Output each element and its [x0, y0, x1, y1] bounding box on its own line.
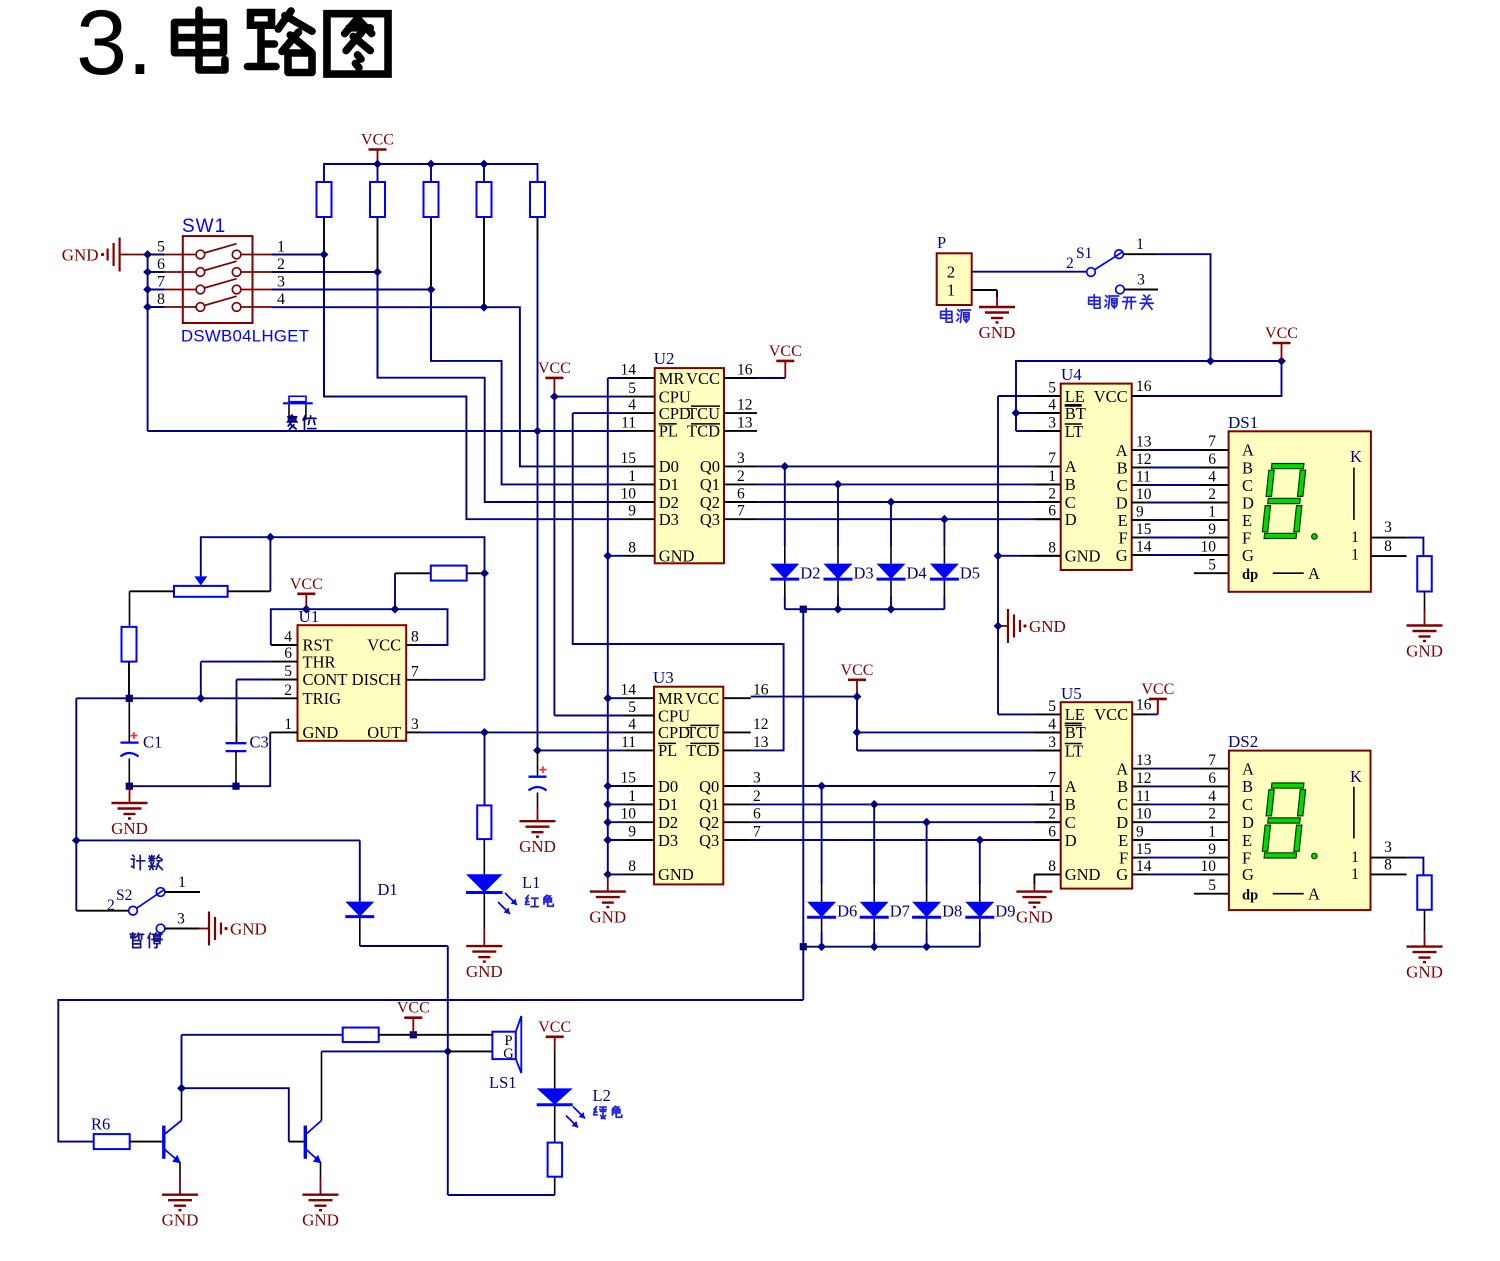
svg-text:LS1: LS1: [489, 1073, 517, 1092]
junction dot U3 MR: [603, 694, 612, 703]
svg-text:D2: D2: [800, 564, 820, 583]
wire reset line to U2 PL: [148, 430, 626, 432]
svg-text:D6: D6: [837, 902, 857, 921]
svg-text:Q3: Q3: [699, 831, 719, 850]
wire SW1 pin2 to R2: [272, 271, 378, 273]
svg-text:VCC: VCC: [1141, 681, 1174, 698]
DS2 pin name K and cathode line: [1350, 767, 1362, 839]
U2 pin stubs left: [626, 378, 655, 556]
pin number 3 (DS1): [1384, 519, 1392, 536]
wire R2 to DISCH column: [467, 572, 485, 574]
svg-text:D3: D3: [854, 564, 874, 583]
svg-text:1: 1: [277, 239, 285, 256]
svg-text:5: 5: [628, 699, 636, 716]
DS2 seven-segment digit 8.: [1262, 783, 1318, 859]
svg-text:E: E: [1242, 511, 1252, 530]
switch S1 pin3 contact: [1116, 285, 1158, 294]
U3 pin names right: [685, 689, 719, 850]
junction dot U3 VCC: [853, 692, 862, 701]
svg-text:16: 16: [737, 362, 753, 379]
svg-text:3: 3: [1384, 519, 1392, 536]
svg-text:5: 5: [1048, 698, 1056, 715]
junction dot Q0/D2: [780, 462, 789, 471]
wire S1 pin1 to U4 supply: [1123, 254, 1210, 361]
power flag VCC (U2 pin16): [757, 343, 802, 378]
svg-text:S2: S2: [116, 887, 132, 904]
label SW1: [182, 216, 226, 237]
junction dot TRIG/C1: [126, 695, 133, 702]
DS1 pin names 1 1: [1351, 529, 1359, 563]
svg-text:GND: GND: [1065, 547, 1101, 566]
wire U4 BT: [1016, 412, 1061, 414]
wire U4 G to DS1: [1147, 554, 1229, 556]
junction dot D1 branch: [72, 836, 81, 845]
U4 pin names right: [1094, 387, 1128, 565]
resistor R (L2 series): [548, 1143, 563, 1177]
junction dot Q0/D6: [817, 782, 826, 791]
wire RST-VCC loop: [271, 609, 448, 645]
power flag VCC (L2): [538, 1019, 571, 1052]
svg-text:1: 1: [1351, 529, 1359, 546]
svg-text:C: C: [1242, 795, 1253, 814]
resistor R2 (pull-up 2): [370, 182, 385, 217]
svg-text:D: D: [1242, 493, 1254, 512]
svg-text:C: C: [1117, 476, 1128, 495]
svg-text:B: B: [1117, 458, 1128, 477]
U5 pin names left: [1065, 705, 1101, 884]
svg-text:5: 5: [284, 663, 292, 680]
wire resistor to L1: [483, 839, 485, 874]
svg-text:1: 1: [1208, 504, 1216, 521]
svg-text:U5: U5: [1061, 684, 1082, 703]
svg-text:4: 4: [628, 397, 636, 414]
svg-text:B: B: [1117, 777, 1128, 796]
DS2 dp-A line: [1273, 885, 1320, 904]
wire R6 to Q1 base: [130, 1141, 163, 1143]
wire R2 bottom down: [377, 217, 379, 378]
svg-text:U4: U4: [1061, 365, 1082, 384]
junction dot VCC/supply line: [1277, 357, 1286, 366]
svg-text:GND: GND: [62, 246, 99, 265]
label D6: [837, 902, 857, 921]
junction dot R2 riser: [391, 605, 400, 614]
svg-text:3: 3: [737, 450, 745, 467]
svg-text:DSWB04LHGET: DSWB04LHGET: [181, 327, 309, 346]
svg-text:1: 1: [1351, 546, 1359, 563]
svg-text:D3: D3: [659, 510, 679, 529]
svg-text:K: K: [1350, 447, 1362, 466]
ground symbol GND (DS2): [1406, 931, 1443, 982]
U4 pin stubs right: [1132, 396, 1147, 555]
wire S2 pin1: [165, 891, 200, 893]
label U5: [1061, 684, 1082, 703]
svg-text:3: 3: [753, 770, 761, 787]
wire bottom bus: [58, 1000, 803, 1142]
DS2 dp stub: [1194, 893, 1229, 895]
diode D2: [770, 466, 799, 609]
svg-text:13: 13: [753, 734, 769, 751]
svg-text:VCC: VCC: [1094, 705, 1128, 724]
svg-text:9: 9: [628, 503, 636, 520]
svg-text:VCC: VCC: [769, 343, 802, 360]
svg-text:GND: GND: [519, 837, 556, 856]
svg-text:dp: dp: [1242, 888, 1258, 904]
DS1 segment pin names: [1242, 440, 1258, 583]
resistor R (DS1 cathode): [1417, 556, 1432, 591]
svg-text:6: 6: [284, 645, 292, 662]
svg-text:U3: U3: [653, 668, 674, 687]
wire U5 D to DS2: [1147, 821, 1229, 823]
svg-text:VCC: VCC: [361, 132, 394, 149]
U5 pin stubs left: [1035, 714, 1061, 874]
wire U3 Q2 to U5 input: [751, 821, 1061, 823]
wire R4 bottom down: [483, 217, 485, 307]
wire SW1 left common column to reset line: [148, 255, 165, 432]
svg-text:2: 2: [947, 263, 955, 282]
svg-text:VCC: VCC: [1094, 387, 1128, 406]
IC U2 body: [655, 368, 724, 563]
ground symbol GND (U3 ground rail): [589, 874, 626, 926]
switch S1: [1087, 250, 1124, 276]
wire BT LT supply line: [1016, 361, 1282, 431]
junction dot pin1/R1: [320, 250, 329, 259]
svg-text:11: 11: [621, 734, 636, 751]
svg-text:GND: GND: [230, 920, 267, 939]
junction dot Q3/D5: [940, 515, 949, 524]
svg-text:GND: GND: [1029, 617, 1066, 636]
label D7: [890, 902, 910, 921]
junction dot VCC/speaker P: [410, 1031, 417, 1038]
label DSWB04LHGET: [181, 327, 309, 346]
wire U4 LE to ground rail: [998, 396, 1061, 714]
wire U5 G to DS2: [1147, 873, 1229, 875]
resistor R5 (pull-up 5): [530, 182, 545, 217]
svg-text:2: 2: [277, 256, 285, 273]
junction dot U2 GND: [603, 551, 612, 560]
svg-text:GND: GND: [659, 547, 695, 566]
wire pot wiper to top rail and down to DISCH: [201, 537, 485, 680]
speaker LS1: [492, 1016, 521, 1073]
svg-text:G: G: [503, 1046, 514, 1062]
wire U2 Q1 to U4 input: [757, 483, 1061, 485]
wire R2 riser: [395, 573, 431, 609]
svg-text:1: 1: [1351, 849, 1359, 866]
wire U3 D inputs to ground rail: [608, 786, 626, 840]
svg-text:Q1: Q1: [700, 475, 720, 494]
svg-text:1: 1: [628, 788, 636, 805]
diode D3: [824, 484, 853, 609]
svg-text:1: 1: [1048, 468, 1056, 485]
wire VCC rail: [324, 164, 538, 182]
DS1 seven-segment digit 8.: [1262, 464, 1318, 540]
svg-text:A: A: [1116, 441, 1128, 460]
svg-text:GND: GND: [658, 865, 694, 884]
wire Q1 emitter to GND: [179, 1162, 181, 1178]
svg-text:R6: R6: [91, 1115, 110, 1134]
svg-text:13: 13: [737, 414, 753, 431]
label 复位: [287, 415, 316, 429]
svg-text:E: E: [1118, 831, 1128, 850]
ground symbol GND (C1): [111, 786, 148, 838]
svg-text:7: 7: [1048, 770, 1056, 787]
svg-text:1: 1: [1048, 788, 1056, 805]
wire U1 GND to C1 C3 bus: [129, 732, 297, 786]
U2 pin names left: [659, 369, 695, 566]
DS1 dp-A line: [1273, 564, 1320, 583]
svg-text:B: B: [1242, 777, 1253, 796]
svg-text:15: 15: [621, 770, 637, 787]
capacitor C2 (on U3 PL): [529, 750, 547, 808]
svg-text:D7: D7: [890, 902, 910, 921]
svg-text:C3: C3: [250, 733, 269, 752]
svg-text:DISCH: DISCH: [352, 670, 402, 689]
svg-text:12: 12: [1136, 451, 1152, 468]
wire U4 E to DS1: [1147, 519, 1229, 521]
transistor Q1: [164, 1121, 182, 1164]
junction dot VCC/RST loop: [302, 605, 311, 614]
IC U1 body: [298, 625, 407, 741]
svg-text:9: 9: [628, 824, 636, 841]
svg-text:2: 2: [1208, 486, 1216, 503]
ground symbol GND (Q2): [302, 1178, 339, 1230]
svg-text:Q0: Q0: [700, 457, 720, 476]
speaker pin names P G: [503, 1033, 514, 1062]
wire R3 bottom down: [430, 217, 432, 361]
svg-text:CONT: CONT: [303, 670, 348, 689]
junction dot CPU/VCC: [550, 392, 559, 401]
svg-text:7: 7: [737, 503, 745, 520]
wire R5 bottom down to reset line and U3 PL: [537, 217, 539, 750]
resistor R4 (pull-up 4): [477, 182, 492, 217]
label D4: [907, 564, 927, 583]
svg-text:B: B: [1065, 475, 1076, 494]
svg-text:1: 1: [178, 874, 186, 891]
svg-text:D: D: [1116, 813, 1128, 832]
pushbutton 复位 (reset): [283, 396, 313, 420]
svg-text:D0: D0: [659, 457, 679, 476]
svg-text:GND: GND: [1406, 963, 1443, 982]
power flag VCC (top pull-up rail): [361, 132, 394, 165]
svg-text:10: 10: [1136, 486, 1152, 503]
svg-text:9: 9: [1136, 504, 1144, 521]
wire D1 cathode to LS1/L2 net: [360, 946, 448, 1195]
wire U4 F to DS1: [1147, 537, 1229, 539]
pin number 3 (S2): [177, 911, 185, 928]
svg-text:8: 8: [1384, 538, 1392, 555]
label L1: [522, 873, 540, 892]
svg-text:12: 12: [1136, 770, 1152, 787]
svg-text:4: 4: [284, 629, 292, 646]
U1 pin names: [303, 636, 402, 743]
svg-text:7: 7: [753, 824, 761, 841]
svg-text:E: E: [1118, 511, 1128, 530]
svg-text:D8: D8: [942, 902, 962, 921]
wire U5 GND to ground: [1034, 874, 1060, 884]
svg-text:1: 1: [947, 281, 955, 300]
label D9: [995, 902, 1015, 921]
svg-text:D0: D0: [658, 777, 678, 796]
svg-text:GND: GND: [111, 819, 148, 838]
wire P pin1 to ground: [972, 290, 997, 297]
wire U2 MR to ground rail: [608, 378, 626, 874]
junction dots SW1 left column: [143, 250, 152, 311]
ground symbol GND (Q1): [162, 1178, 199, 1230]
DS2 pin3 wire to resistor: [1371, 858, 1424, 876]
U5 pin numbers left: [1048, 698, 1056, 875]
U5 pin stubs right: [1132, 714, 1147, 874]
junction dot Q1/D3: [834, 480, 843, 489]
svg-text:D: D: [1065, 510, 1077, 529]
wire U3 MR CPU PL left connections: [538, 698, 626, 750]
ground symbol GND (sideways, U4): [998, 609, 1066, 643]
IC U5 body: [1061, 702, 1133, 888]
wire resistor to TRIG line: [128, 662, 130, 699]
svg-text:14: 14: [621, 362, 637, 379]
label DS2: [1228, 732, 1258, 751]
svg-text:14: 14: [1136, 858, 1152, 875]
svg-text:1: 1: [1351, 866, 1359, 883]
svg-text:2: 2: [1208, 806, 1216, 823]
svg-text:2: 2: [1048, 486, 1056, 503]
svg-text:8: 8: [1384, 857, 1392, 874]
LED L1 (red): [466, 874, 517, 930]
U5 pin numbers right: [1136, 696, 1152, 875]
svg-text:7: 7: [1208, 752, 1216, 769]
switch SW1 DIP body: [165, 236, 272, 323]
svg-text:VCC: VCC: [685, 689, 719, 708]
svg-text:7: 7: [1208, 433, 1216, 450]
DS1 pin3 wire to resistor: [1371, 538, 1424, 557]
title "3.电路图": [76, 0, 388, 94]
wire U2 Q2 to U4 input: [757, 501, 1061, 503]
svg-text:D5: D5: [960, 564, 980, 583]
wire THR to TRIG: [201, 662, 298, 699]
label D1: [378, 880, 398, 899]
pin numbers SW1 right 1 2 3 4: [277, 239, 285, 309]
svg-text:D9: D9: [995, 902, 1015, 921]
wire supply to U4 pin16: [1132, 361, 1282, 396]
svg-text:5: 5: [1048, 380, 1056, 397]
svg-text:10: 10: [1201, 539, 1217, 556]
wire resistor to VCC junction and speaker P: [379, 1034, 493, 1036]
wire U1 OUT to U3 CPD: [406, 731, 625, 733]
svg-text:dp: dp: [1242, 567, 1258, 583]
junction dots on lower diode bus: [800, 942, 931, 951]
svg-text:3: 3: [1048, 734, 1056, 751]
svg-text:5: 5: [628, 380, 636, 397]
svg-text:D1: D1: [378, 880, 398, 899]
pin number 1 (S1): [1136, 236, 1144, 253]
wire P pin2 to S1: [972, 271, 1087, 273]
DS1 pin numbers left: [1201, 433, 1217, 574]
junction dot S1/supply line: [1206, 357, 1215, 366]
svg-text:5: 5: [1208, 877, 1216, 894]
svg-text:D3: D3: [658, 831, 678, 850]
wire route pin2 to U2 D2: [378, 272, 626, 502]
capacitor C1: [121, 698, 139, 786]
svg-text:D2: D2: [659, 493, 679, 512]
svg-text:G: G: [1242, 546, 1254, 565]
IC U4 body: [1061, 384, 1132, 570]
junction dots on VCC rail: [373, 160, 488, 169]
wire Q2 emitter to GND: [320, 1162, 322, 1178]
pin number 8 (DS2): [1384, 857, 1392, 874]
pin number 1 (S2): [178, 874, 186, 891]
svg-text:F: F: [1119, 528, 1128, 547]
wire U4 A to DS1: [1147, 449, 1229, 451]
label U2: [654, 349, 675, 368]
svg-text:G: G: [1116, 865, 1128, 884]
U1 pin numbers: [284, 629, 419, 733]
U4 pin names left: [1065, 387, 1101, 566]
svg-text:GND: GND: [1016, 908, 1053, 927]
diode D1: [345, 902, 374, 946]
wire OUT down to L1 resistor: [484, 732, 486, 805]
svg-text:9: 9: [1208, 841, 1216, 858]
junction dot reset/R5: [533, 427, 542, 436]
svg-text:8: 8: [1048, 539, 1056, 556]
svg-text:U2: U2: [654, 349, 675, 368]
resistor R (DS2 cathode): [1417, 875, 1432, 910]
wire Q2 collector to speaker G net: [322, 1051, 448, 1120]
ground symbol GND (DS1): [1406, 610, 1443, 661]
svg-text:GND: GND: [302, 1211, 339, 1230]
wire U4 GND to ground rail: [998, 555, 1061, 557]
power flag VCC (U5 pin16): [1141, 681, 1174, 715]
wire VCC to U2 CPU and down to U3 CPU: [554, 397, 625, 716]
svg-text:2: 2: [1048, 806, 1056, 823]
capacitor C3: [226, 743, 247, 786]
ground symbol GND (L1): [466, 930, 503, 981]
svg-text:3: 3: [1137, 272, 1145, 289]
svg-text:4: 4: [1048, 716, 1056, 733]
wire resistor to GND (DS1): [1424, 592, 1426, 610]
label D5: [960, 564, 980, 583]
svg-text:16: 16: [1136, 378, 1152, 395]
svg-text:F: F: [1242, 528, 1251, 547]
junction dot OUT/L1: [480, 728, 489, 737]
svg-text:Q3: Q3: [700, 510, 720, 529]
ground symbol GND (S2): [199, 912, 267, 946]
resistor R (left vertical): [122, 627, 137, 662]
junction dot U5 BT line: [853, 728, 862, 737]
wire U4 C to DS1: [1147, 484, 1229, 486]
wire U4 LT: [1016, 430, 1061, 432]
potentiometer RP1: [174, 576, 228, 596]
svg-text:D4: D4: [907, 564, 927, 583]
wire pot right terminal up: [228, 537, 271, 591]
label U4: [1061, 365, 1082, 384]
svg-text:VCC: VCC: [538, 360, 571, 377]
DS1 dp stub: [1194, 572, 1229, 574]
resistor R3 (pull-up 3): [424, 182, 439, 217]
svg-text:D2: D2: [658, 813, 678, 832]
junction dot Q3/D9: [975, 836, 984, 845]
svg-text:4: 4: [628, 716, 636, 733]
svg-text:D: D: [1065, 831, 1077, 850]
label S1: [1066, 245, 1092, 272]
label D3: [854, 564, 874, 583]
svg-text:11: 11: [621, 414, 636, 431]
pin number 3 (DS2): [1384, 839, 1392, 856]
ground symbol GND (C2): [519, 808, 556, 856]
junction dot U3 GND: [603, 870, 612, 879]
DS2 pin names 1 1: [1351, 849, 1359, 883]
svg-text:6: 6: [753, 806, 761, 823]
wire U5 A to DS2: [1147, 768, 1229, 770]
svg-text:D1: D1: [658, 795, 678, 814]
svg-text:8: 8: [628, 539, 636, 556]
